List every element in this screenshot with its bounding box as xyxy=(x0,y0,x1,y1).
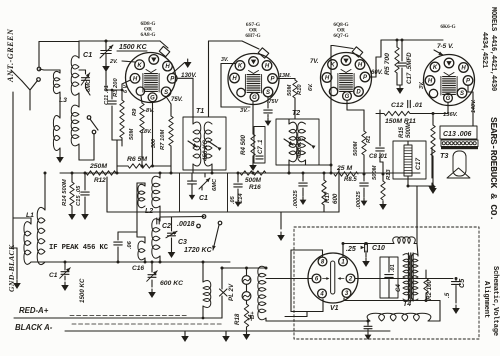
svg-text:.25: .25 xyxy=(346,246,356,253)
svg-text:6A8-G: 6A8-G xyxy=(140,32,155,38)
svg-text:R18: R18 xyxy=(234,313,241,325)
diode load wire tube3 xyxy=(346,101,348,111)
svg-text:C1: C1 xyxy=(49,272,58,279)
svg-text:C17 .5MFD: C17 .5MFD xyxy=(406,52,413,84)
tube U1 pin S xyxy=(161,87,171,97)
svg-text:250M: 250M xyxy=(89,163,107,170)
tube U2 pin G xyxy=(250,93,259,102)
svg-text:T1: T1 xyxy=(196,108,204,115)
bus wire lower row xyxy=(60,172,420,174)
bottom wire row y=262 xyxy=(31,261,230,263)
svg-text:H: H xyxy=(265,64,270,70)
tube U3 grid cap xyxy=(352,47,363,57)
capacitor C7 .1 box xyxy=(254,127,265,164)
V1 pin8 wire xyxy=(322,250,324,257)
svg-text:C1: C1 xyxy=(199,195,208,202)
V1 pin6 wire xyxy=(266,278,312,280)
svg-text:MODELS 4416,4421,4430: MODELS 4416,4421,4430 xyxy=(489,7,497,91)
ground below C1 xyxy=(105,54,107,58)
tube U2 pin grid xyxy=(249,57,259,67)
svg-text:R14 500M: R14 500M xyxy=(62,179,68,206)
tube U3 6Q8-G envelope xyxy=(321,53,372,104)
tube U4 pin H left xyxy=(425,76,435,86)
svg-text:.01: .01 xyxy=(413,102,423,109)
svg-text:600 KC: 600 KC xyxy=(160,280,183,287)
svg-text:C5: C5 xyxy=(457,278,466,288)
tube U1 pin G xyxy=(148,93,157,102)
A- rail solid xyxy=(65,330,390,332)
coil L2 upper main xyxy=(152,176,160,207)
svg-text:R9: R9 xyxy=(132,108,138,116)
svg-text:R1: R1 xyxy=(366,136,372,143)
B+ wire from V1 pin 2 xyxy=(356,278,454,280)
V1 pin1 wire to C10 xyxy=(342,244,344,258)
svg-text:SEARS-ROEBUCK & CO.: SEARS-ROEBUCK & CO. xyxy=(488,117,499,221)
svg-text:4434,4521: 4434,4521 xyxy=(480,32,488,68)
tube V1 pin 6 xyxy=(312,274,321,283)
T1 primary coil xyxy=(193,122,201,166)
coil L1 primary xyxy=(24,222,31,265)
A- rail dashed xyxy=(72,323,222,325)
svg-text:R15: R15 xyxy=(399,126,405,138)
svg-text:H: H xyxy=(358,63,363,69)
svg-text:BLACK A-: BLACK A- xyxy=(15,323,53,332)
electrolytic C17 box xyxy=(393,141,426,179)
svg-text:1720 KC: 1720 KC xyxy=(184,247,213,254)
svg-text:C10: C10 xyxy=(372,245,385,252)
tube U1 pin H left xyxy=(130,74,140,84)
coil L2 lower small xyxy=(138,241,145,260)
tube U4 pin G xyxy=(444,94,453,103)
tube U2 pin S xyxy=(263,87,273,97)
svg-text:C12: C12 xyxy=(391,102,404,109)
B+ rail top xyxy=(381,39,443,41)
coil L3 primary lower xyxy=(53,116,60,151)
tube U2 pin F xyxy=(237,88,245,96)
tube U3 pin P xyxy=(360,72,370,82)
tube U1 pin F xyxy=(136,87,144,95)
svg-text:4: 4 xyxy=(319,292,324,298)
svg-text:75V.: 75V. xyxy=(171,97,183,103)
svg-text:500M: 500M xyxy=(372,165,378,180)
resistor R16 500M xyxy=(240,171,266,175)
svg-text:60V.: 60V. xyxy=(371,70,383,76)
plate wire tube4 to C13 xyxy=(467,86,469,92)
svg-text:18V.: 18V. xyxy=(141,129,152,135)
T2 secondary coil xyxy=(298,122,306,162)
ground below R5 C17 xyxy=(399,85,401,89)
svg-text:6K6-G: 6K6-G xyxy=(440,24,455,30)
transformer T4 input box C4 xyxy=(380,257,398,298)
tube V1 pin 2 xyxy=(346,274,355,283)
tube U4 6K6-G envelope xyxy=(424,55,475,106)
trimmer arrows T1 xyxy=(188,141,197,147)
svg-text:3V.-: 3V.- xyxy=(240,108,250,114)
V1 pin4 wire xyxy=(322,299,324,312)
bypass cap at S pin tube2 xyxy=(267,97,269,108)
V1 pin3 wire xyxy=(343,298,345,301)
ground 130V right of tube1 xyxy=(172,63,184,74)
tube U3 pin H left xyxy=(322,73,332,83)
tube U3 pin grid xyxy=(341,56,351,66)
svg-text:ANT.-GREEN: ANT.-GREEN xyxy=(6,28,15,83)
svg-text:500M: 500M xyxy=(353,141,359,156)
svg-text:140V.: 140V. xyxy=(471,99,477,113)
tube U2 pin K xyxy=(235,61,245,71)
T2 primary coil xyxy=(289,122,297,162)
svg-text:456 KC: 456 KC xyxy=(202,139,209,162)
svg-text:6MC: 6MC xyxy=(212,178,218,191)
svg-text:H: H xyxy=(232,76,237,82)
svg-text:S: S xyxy=(460,91,464,97)
speaker cone xyxy=(447,168,470,178)
coil L3 secondary lower xyxy=(71,105,79,146)
svg-text:V1: V1 xyxy=(330,305,339,312)
T1 wires xyxy=(177,77,193,79)
T2 wires xyxy=(288,160,290,173)
svg-text:6Q7-G: 6Q7-G xyxy=(333,33,348,39)
svg-text:2: 2 xyxy=(348,277,353,283)
svg-text:R3 200: R3 200 xyxy=(113,78,119,97)
svg-text:1500 KC: 1500 KC xyxy=(79,278,86,303)
svg-text:.00025: .00025 xyxy=(356,190,362,209)
svg-text:34: 34 xyxy=(248,314,254,321)
coil L3 secondary upper xyxy=(71,56,79,95)
svg-text:.05: .05 xyxy=(230,195,236,204)
svg-text:R13: R13 xyxy=(386,169,392,180)
svg-text:G: G xyxy=(150,95,155,101)
tube V1 pin 1 xyxy=(339,257,348,266)
svg-text:T4: T4 xyxy=(403,301,411,308)
svg-text:H: H xyxy=(428,79,433,85)
svg-text:C1: C1 xyxy=(83,50,92,59)
svg-text:6V.: 6V. xyxy=(308,83,314,91)
coil L2 upper small xyxy=(138,184,145,207)
ground below L3 xyxy=(59,148,61,154)
svg-text:6 V.: 6 V. xyxy=(123,83,129,93)
svg-text:D: D xyxy=(356,90,361,96)
tube U3 pin G xyxy=(343,92,352,101)
svg-text:T3: T3 xyxy=(440,151,448,160)
oscillator padder coil xyxy=(203,281,211,308)
antenna switch xyxy=(37,67,41,71)
svg-text:K: K xyxy=(238,64,243,70)
tube U1 pin H right xyxy=(163,61,173,71)
tube V1 pin 4 xyxy=(318,289,327,298)
svg-text:R5 700: R5 700 xyxy=(384,53,391,75)
svg-text:R2 100: R2 100 xyxy=(426,279,433,300)
tube U1 pin P xyxy=(167,74,177,84)
svg-text:R12: R12 xyxy=(94,177,106,184)
tube U4 internals xyxy=(443,76,456,78)
transformer T4 core xyxy=(408,253,410,301)
svg-text:C4: C4 xyxy=(396,284,402,292)
tube U4 pin grid xyxy=(444,58,454,68)
tube2 cathode box wires xyxy=(221,63,236,65)
tube U2 pin P xyxy=(268,74,278,84)
tube V1 rectifier envelope xyxy=(308,253,358,303)
antenna lead-in wire xyxy=(11,70,22,81)
svg-text:C2: C2 xyxy=(162,223,171,230)
trimmer box C1 6MC xyxy=(180,173,228,212)
tube U2 6S7-G envelope xyxy=(228,54,279,105)
A+ rail dashed xyxy=(70,315,188,317)
svg-text:T2: T2 xyxy=(292,110,300,117)
tube U2 pin H left xyxy=(230,73,240,83)
ground below C10 xyxy=(365,251,367,257)
svg-text:50M: 50M xyxy=(287,85,293,96)
heater row wire xyxy=(222,267,266,269)
svg-text:G: G xyxy=(345,94,350,100)
tube U1 6D8-G envelope xyxy=(126,53,176,103)
svg-text:H: H xyxy=(165,64,170,70)
svg-text:R16: R16 xyxy=(249,184,261,191)
shield box lines xyxy=(107,211,339,213)
transformer T4 secondary xyxy=(411,254,418,301)
tube U4 pin S xyxy=(457,88,467,98)
svg-text:C17: C17 xyxy=(415,158,422,170)
ground lead GND xyxy=(16,248,18,279)
grid cap wire tube2 xyxy=(242,41,259,49)
svg-text:3V.: 3V. xyxy=(221,57,228,63)
coil L2 lower main xyxy=(152,219,160,258)
speaker magnet xyxy=(453,151,466,176)
wire junction to tube1 grid area xyxy=(105,58,107,90)
tube V1 filament bar xyxy=(331,261,335,294)
svg-text:C13 .006: C13 .006 xyxy=(443,131,472,138)
coil L1 secondary xyxy=(37,207,45,264)
IF transformer T2 box xyxy=(276,119,319,165)
tube U1 pin grid xyxy=(149,55,159,65)
tube U3 pin H right xyxy=(355,60,365,70)
tube U3 pin D xyxy=(354,87,364,97)
svg-text:.75V: .75V xyxy=(267,99,278,105)
svg-text:C3: C3 xyxy=(178,239,187,246)
resistor R2 100 xyxy=(424,278,428,293)
svg-text:S: S xyxy=(266,90,270,96)
svg-text:C16: C16 xyxy=(132,265,144,272)
A+ rail solid xyxy=(14,317,222,319)
svg-text:500: 500 xyxy=(151,139,157,148)
svg-text:R4 500: R4 500 xyxy=(240,134,247,155)
filter choke top xyxy=(393,237,415,244)
antenna trimmer 6MC xyxy=(82,77,90,79)
svg-text:456 KC: 456 KC xyxy=(296,136,303,159)
ground below R15 xyxy=(432,185,434,189)
svg-text:R6 5M: R6 5M xyxy=(127,156,147,163)
svg-text:Alignment: Alignment xyxy=(482,281,490,318)
tube U3 internals xyxy=(340,73,353,75)
svg-text:6H7-G: 6H7-G xyxy=(245,33,260,39)
fuse branch xyxy=(221,296,223,318)
antenna down-lead wire xyxy=(12,92,14,248)
trimmer C3 1720KC xyxy=(168,232,176,234)
capacitor C2 .0018 xyxy=(160,216,204,219)
capacitor at choke input xyxy=(367,321,369,325)
svg-text:H: H xyxy=(325,76,330,82)
svg-text:500M: 500M xyxy=(245,177,262,184)
svg-text:K: K xyxy=(137,63,142,69)
svg-text:50M: 50M xyxy=(129,129,135,140)
svg-text:.06: .06 xyxy=(127,240,133,249)
tube U4 pin K xyxy=(430,62,440,72)
svg-text:C7 .1: C7 .1 xyxy=(258,139,264,154)
svg-text:RED-A+: RED-A+ xyxy=(19,306,49,315)
svg-text:136V.: 136V. xyxy=(443,112,458,118)
tube U3 pin F xyxy=(329,87,337,95)
plate wire tube3 xyxy=(370,76,376,78)
tube U3 pin K xyxy=(328,60,338,70)
capacitor C13 .006 box xyxy=(440,126,477,139)
svg-text:7-5 V.: 7-5 V. xyxy=(437,43,454,50)
power supply dashed box xyxy=(294,227,479,339)
wire L3 to C1 to grid cap xyxy=(79,40,106,42)
IF transformer T1 box xyxy=(183,117,226,170)
transformer T4 primary xyxy=(403,254,410,301)
wire row 113 right xyxy=(376,113,384,115)
svg-text:.5: .5 xyxy=(444,292,451,298)
tube U4 pin F xyxy=(429,89,437,97)
svg-text:PL 2V: PL 2V xyxy=(228,283,235,301)
coil L3 primary upper xyxy=(53,71,60,93)
svg-text:R7 10M: R7 10M xyxy=(160,130,166,150)
tube V1 pin 3 xyxy=(342,289,351,298)
tube V1 pin 8 xyxy=(318,257,327,266)
svg-text:R8.5: R8.5 xyxy=(344,177,357,183)
tube4 grid wire xyxy=(447,103,449,114)
svg-text:G: G xyxy=(252,95,257,101)
svg-text:.01: .01 xyxy=(390,264,396,272)
svg-text:C15 .05: C15 .05 xyxy=(76,185,82,206)
tube U1 internals xyxy=(145,73,158,75)
svg-text:2V.: 2V. xyxy=(109,59,118,65)
tube U2 grid cap xyxy=(258,48,269,58)
svg-text:C11 .01: C11 .01 xyxy=(104,85,110,105)
svg-text:S: S xyxy=(164,90,168,96)
oscillator switch xyxy=(197,224,201,228)
tube U4 pin H right xyxy=(459,63,469,73)
speaker field coil xyxy=(258,266,266,320)
svg-text:1500 KC: 1500 KC xyxy=(119,44,148,51)
tube U2 internals xyxy=(247,74,260,76)
svg-text:K: K xyxy=(433,65,438,71)
ground arrows on rails xyxy=(184,331,186,334)
svg-text:Schematic,Voltage: Schematic,Voltage xyxy=(491,266,499,336)
bottom choke xyxy=(367,313,431,321)
speaker field winding bar xyxy=(441,140,478,147)
grid cap wire tube3 xyxy=(333,46,353,49)
V1 left wire xyxy=(290,250,292,312)
trimmer arrows T2 xyxy=(284,139,293,145)
ground inside dashed box top-left xyxy=(280,212,282,229)
svg-text:.00025: .00025 xyxy=(293,189,299,208)
svg-text:600: 600 xyxy=(332,193,339,204)
svg-text:G: G xyxy=(446,96,451,102)
tube U1 pin K xyxy=(135,60,145,70)
junction dots xyxy=(116,172,119,175)
tube U1 grid cap xyxy=(159,46,170,56)
svg-text:H: H xyxy=(133,76,138,82)
resistor R11 150M xyxy=(384,111,410,115)
svg-text:7V.: 7V. xyxy=(310,59,319,65)
tube U4 pin P xyxy=(463,76,473,86)
wire G pin down xyxy=(152,102,154,160)
T1 secondary coil xyxy=(204,122,212,166)
svg-text:IF PEAK 456 KC: IF PEAK 456 KC xyxy=(49,244,109,252)
svg-text:500M: 500M xyxy=(406,122,412,138)
svg-text:H: H xyxy=(461,66,466,72)
svg-text:R10: R10 xyxy=(297,84,303,95)
svg-text:C8 .01: C8 .01 xyxy=(369,153,388,160)
band switch lower xyxy=(87,116,91,120)
capacitor C5 .5 xyxy=(452,281,461,283)
tube U2 pin H right xyxy=(262,61,272,71)
svg-text:3V.: 3V. xyxy=(419,81,425,89)
svg-text:.0018: .0018 xyxy=(177,221,195,228)
ground left of speaker xyxy=(431,148,433,178)
